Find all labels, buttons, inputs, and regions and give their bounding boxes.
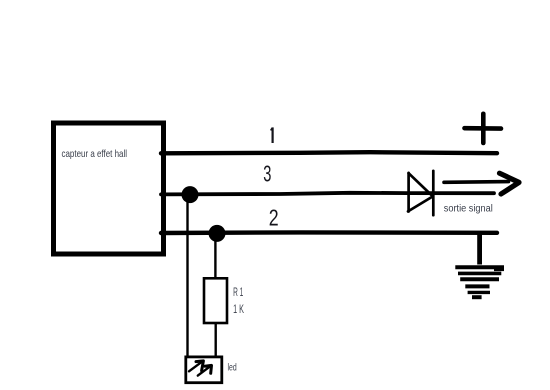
- svg-text:R 1: R 1: [233, 285, 243, 299]
- signal output arrow: [444, 173, 519, 194]
- svg-text:sortie signal: sortie signal: [444, 204, 493, 215]
- plus symbol (+ supply terminal): [465, 114, 502, 143]
- ground bar 3: [460, 277, 499, 281]
- ground bar 1: [455, 265, 504, 269]
- led arrow 1 (inside box): [189, 361, 203, 371]
- svg-text:capteur a effet hall: capteur a effet hall: [62, 148, 128, 160]
- svg-text:led: led: [228, 362, 237, 374]
- wire 3 (pin 3 signal wire through diode): [161, 193, 494, 195]
- svg-text:3: 3: [263, 163, 271, 188]
- svg-text:2: 2: [269, 205, 279, 231]
- sensor box U1 (capteur a effet hall): [54, 123, 164, 254]
- ground bar 2: [458, 272, 501, 276]
- junction node on wire 3: [182, 186, 199, 203]
- ground bar 5: [468, 291, 490, 294]
- ground stem: [477, 231, 482, 265]
- diode D1: [408, 171, 433, 215]
- junction node on wire 2: [209, 225, 226, 242]
- ground bar 4: [465, 284, 489, 288]
- wire 1 (pin 1 to + supply): [161, 152, 497, 153]
- wire from resistor down to led (right leg): [214, 323, 216, 358]
- ground bar 6: [472, 295, 482, 299]
- svg-text:1 K: 1 K: [233, 302, 244, 316]
- wire 2 (pin 2 to ground): [161, 230, 497, 235]
- wire from junction 3 down to led (left leg): [186, 197, 188, 357]
- led arrow 2 (inside box): [198, 365, 212, 375]
- ground bar 1 right tail: [494, 268, 504, 271]
- led box D2: [186, 357, 222, 383]
- pin number 1: [271, 127, 273, 143]
- wire from junction 2 down to resistor: [214, 236, 216, 279]
- resistor R1: [204, 278, 227, 323]
